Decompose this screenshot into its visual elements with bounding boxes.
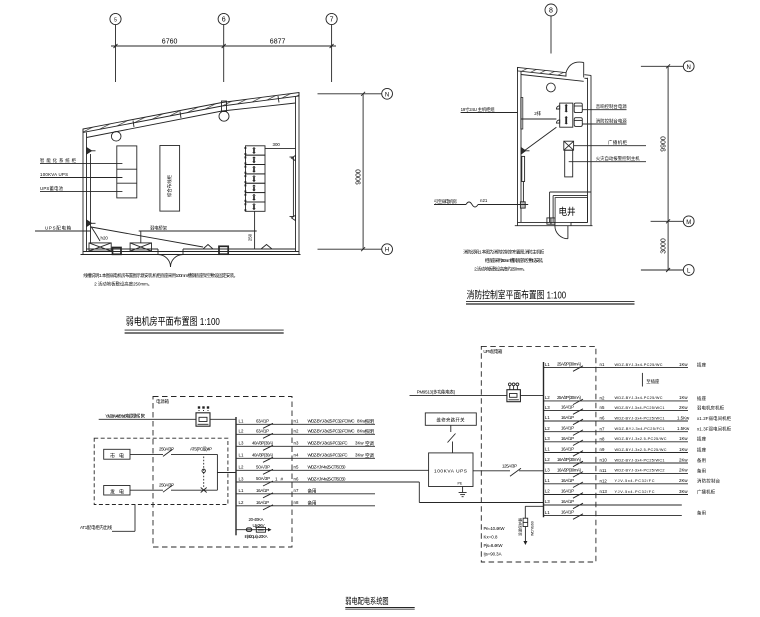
- svg-text:63A/1P: 63A/1P: [256, 428, 269, 433]
- grid line N right: [641, 65, 683, 67]
- svg-text:WDZ-BYJ-3x25-PC32-FC/WC: WDZ-BYJ-3x25-PC32-FC/WC: [308, 419, 355, 424]
- grid bubble 6: [218, 13, 229, 24]
- wall speaker room2: [521, 148, 530, 155]
- roof joint ticks: [133, 121, 134, 128]
- svg-text:WDYB60: WDYB60: [531, 521, 535, 536]
- source box 发电: [104, 486, 130, 496]
- svg-text:WDZ-BYJ-3x4-PC25/WC1: WDZ-BYJ-3x4-PC25/WC1: [615, 406, 665, 410]
- leader label 100KVA UPS: [40, 177, 122, 179]
- svg-text:100KVA UPS: 100KVA UPS: [40, 172, 68, 177]
- svg-text:40A/3P(30A): 40A/3P(30A): [252, 452, 274, 457]
- load calc text block: [484, 526, 506, 557]
- wall speaker right 1: [292, 155, 296, 160]
- svg-text:125A/3P: 125A/3P: [502, 463, 517, 468]
- svg-text:250: 250: [248, 233, 253, 241]
- svg-text:至插座: 至插座: [646, 378, 660, 385]
- room2 bottom wall: [515, 225, 593, 227]
- surge protector SPD2: [517, 506, 543, 545]
- smoke detector circle: [111, 132, 121, 142]
- grid line 5: [115, 25, 117, 82]
- door D1 jambs: [157, 249, 159, 255]
- wall outlet box room2: [520, 202, 525, 208]
- shaft inner outline: [555, 198, 587, 223]
- cable tray label 弱电桥架: [139, 230, 257, 232]
- feeder row n8 spare: [236, 500, 375, 510]
- svg-text:n21: n21: [480, 198, 488, 203]
- svg-text:16A/1P: 16A/1P: [561, 405, 574, 410]
- svg-text:6760: 6760: [162, 39, 178, 46]
- svg-text:L2: L2: [545, 395, 550, 400]
- svg-text:n6: n6: [294, 476, 299, 481]
- svg-text:UPS蓄电池: UPS蓄电池: [40, 185, 64, 192]
- svg-text:Pjs=8.4KW: Pjs=8.4KW: [484, 543, 504, 548]
- breaker QF1 250A/3P: [163, 449, 173, 456]
- svg-text:YJV-5x4-PC32/FC: YJV-5x4-PC32/FC: [615, 479, 655, 483]
- bypass switch link: [448, 425, 456, 453]
- room2 top door leaf and swing: [566, 62, 591, 78]
- svg-text:6: 6: [222, 16, 226, 23]
- leader 音响控制台: [582, 109, 626, 111]
- wall bottom mid: [83, 251, 299, 253]
- svg-text:WDZ-YJY-4x25-CT/SC50: WDZ-YJY-4x25-CT/SC50: [308, 465, 347, 470]
- svg-text:L2: L2: [239, 465, 244, 470]
- wall tray bar room2: [522, 156, 525, 181]
- feeder row u6: [544, 436, 707, 446]
- wire breaker to ATS: [171, 453, 201, 455]
- svg-text:L2: L2: [545, 489, 550, 494]
- svg-text:AT1配电柜内出线: AT1配电柜内出线: [80, 524, 113, 531]
- svg-text:维修旁路开关: 维修旁路开关: [437, 417, 466, 424]
- dimension 9900: [660, 64, 670, 272]
- maintenance bypass box 维修旁路开关: [425, 413, 476, 425]
- leader label 配电柜出线: [80, 505, 135, 532]
- surge protector SPD1 branch: [236, 517, 272, 539]
- rack top link wire: [265, 147, 296, 149]
- wire meter to bus: [210, 418, 236, 420]
- grid bubble M: [683, 216, 694, 227]
- svg-text:16A/1P: 16A/1P: [561, 499, 574, 504]
- svg-text:PE: PE: [458, 482, 463, 486]
- wall left outer: [82, 129, 84, 255]
- grid bubble N (right plan): [683, 61, 694, 72]
- grid line 7: [331, 25, 333, 82]
- svg-text:n2: n2: [600, 396, 605, 401]
- multifunction meter M2: [507, 383, 521, 402]
- kWh meter M1: [196, 406, 210, 426]
- wall bottom outer: [81, 254, 301, 256]
- feeder row n7 spare: [236, 488, 375, 498]
- note h20: [91, 227, 100, 242]
- floor speaker triangle 1: [203, 245, 213, 250]
- grid bubble 5: [110, 13, 121, 24]
- svg-text:ATS(PC级)4P: ATS(PC级)4P: [190, 446, 212, 453]
- wire 发电 to breaker: [130, 489, 163, 491]
- console desk: [560, 103, 573, 127]
- svg-text:弱电桥架: 弱电桥架: [150, 224, 168, 231]
- svg-text:n6: n6: [600, 416, 605, 421]
- feeder row n1: [236, 418, 375, 428]
- wire 市电 to breaker: [130, 453, 163, 455]
- svg-text:Kx=0.8: Kx=0.8: [484, 535, 499, 540]
- svg-text:n8: n8: [600, 436, 605, 441]
- svg-text:16A/1P: 16A/1P: [256, 488, 269, 493]
- bypass wire n6 run: [419, 482, 543, 503]
- svg-text:市电: 市电: [110, 453, 124, 460]
- grid line L: [641, 269, 683, 271]
- svg-text:插座: 插座: [697, 446, 707, 453]
- svg-text:20-40KA: 20-40KA: [249, 517, 264, 522]
- leader label 智能化系统机柜: [40, 162, 122, 164]
- UPS output breaker 125A/3P: [473, 463, 544, 476]
- svg-text:L: L: [687, 269, 691, 275]
- svg-text:n5: n5: [600, 405, 605, 410]
- cabinet 综合布线柜: [160, 146, 180, 212]
- feeder row u10: [544, 478, 721, 488]
- svg-text:x1.3F弱电间机柜: x1.3F弱电间机柜: [697, 426, 732, 433]
- dimension 9000: [355, 92, 365, 251]
- svg-text:n4: n4: [294, 453, 299, 458]
- fire alarm cabinet: [565, 150, 573, 177]
- branch drop to socket: [642, 373, 659, 387]
- svg-text:1Kw: 1Kw: [679, 447, 688, 452]
- svg-text:L3: L3: [545, 499, 550, 504]
- svg-text:n2: n2: [294, 429, 299, 434]
- grid bubble L: [683, 265, 694, 276]
- svg-text:6877: 6877: [270, 39, 286, 46]
- svg-text:WDZ-BYJ-3x4-PC25/WC: WDZ-BYJ-3x4-PC25/WC: [615, 363, 663, 367]
- source box 市电: [104, 449, 130, 459]
- svg-text:5: 5: [114, 17, 117, 23]
- grid line M: [651, 220, 684, 222]
- svg-text:L1: L1: [239, 419, 244, 424]
- leader 火灾自动报警控制柜: [569, 161, 646, 163]
- svg-text:16A/1P: 16A/1P: [561, 426, 574, 431]
- leader label UPS蓄电池: [40, 191, 122, 193]
- svg-text:H: H: [385, 248, 389, 254]
- svg-text:n7: n7: [294, 488, 299, 493]
- svg-text:柜底座采用250mm 槽钢底座架空敷设安装。: 柜底座采用250mm 槽钢底座架空敷设安装。: [485, 257, 546, 264]
- svg-text:n7: n7: [600, 426, 605, 431]
- feeder row n6 (bypass): [236, 476, 419, 486]
- svg-text:消防控制台电源: 消防控制台电源: [596, 117, 628, 124]
- feeder row u13 spare: [544, 509, 707, 519]
- svg-text:16A/1P: 16A/1P: [561, 489, 574, 494]
- svg-text:n1: n1: [600, 362, 605, 367]
- panel box UPS配电箱 (dashed): [481, 346, 596, 562]
- svg-text:250A/3P: 250A/3P: [159, 447, 174, 452]
- svg-text:WDZ-BYJ-3x2.5-PC25/WC: WDZ-BYJ-3x2.5-PC25/WC: [615, 448, 667, 452]
- operator chair 2: [574, 118, 582, 127]
- svg-text:浪涌保护器: 浪涌保护器: [517, 518, 522, 536]
- svg-text:线槽说明:1 本图弱电机房布置图示意安装,机柜底座采用100: 线槽说明:1 本图弱电机房布置图示意安装,机柜底座采用100mm槽钢底座架空敷设…: [83, 272, 238, 279]
- svg-text:n13: n13: [600, 489, 608, 494]
- svg-text:M: M: [686, 220, 691, 226]
- operator chair 1: [574, 103, 582, 113]
- svg-text:n10: n10: [600, 458, 608, 463]
- wire meter to bus: [520, 394, 543, 396]
- wall speaker left 2: [87, 220, 96, 227]
- svg-text:备用: 备用: [308, 488, 317, 495]
- svg-text:L2: L2: [545, 457, 550, 462]
- rack row of 7 cabinets: [245, 146, 266, 212]
- svg-text:300: 300: [273, 142, 281, 147]
- feeder row u5: [544, 426, 732, 436]
- feeder row u8: [544, 457, 707, 467]
- svg-text:Ijs=90.3A: Ijs=90.3A: [484, 552, 502, 557]
- svg-text:WDZ-BYJ-3x4-PC25/FC1: WDZ-BYJ-3x4-PC25/FC1: [615, 427, 665, 431]
- svg-text:9000: 9000: [355, 169, 362, 185]
- svg-text:N: N: [687, 65, 691, 71]
- diagonal conduit room2: [524, 127, 556, 151]
- grid line N: [318, 93, 382, 95]
- room2 top wall hatched: [518, 67, 567, 76]
- wall left inner: [86, 133, 88, 252]
- svg-text:16A/1P: 16A/1P: [561, 510, 574, 515]
- svg-text:备用: 备用: [697, 467, 706, 474]
- svg-text:WDZ-BYJ-3x4-PC25/WC1: WDZ-BYJ-3x4-PC25/WC1: [615, 458, 665, 462]
- panel box 电源箱 (dashed): [153, 397, 292, 548]
- grid line 6: [223, 25, 225, 82]
- rack feeder drop 250: [254, 211, 256, 249]
- svg-text:1#: 1#: [275, 476, 283, 481]
- feeder row n4: [236, 452, 375, 462]
- svg-text:3000: 3000: [660, 238, 667, 254]
- svg-text:WDZ-BYJ-3x2.5-PC25/WC: WDZ-BYJ-3x2.5-PC25/WC: [615, 437, 667, 441]
- svg-text:40A/3P(30A): 40A/3P(30A): [252, 440, 274, 445]
- svg-text:综合布线柜: 综合布线柜: [166, 174, 173, 197]
- feeder row u12 spare: [544, 499, 682, 509]
- feeder row n2: [236, 428, 375, 438]
- wall cable tray line: [292, 157, 294, 217]
- feeder row u11: [544, 488, 716, 498]
- svg-text:L1: L1: [545, 510, 550, 515]
- svg-text:63A/1P: 63A/1P: [256, 418, 269, 423]
- svg-text:16A/1P: 16A/1P: [561, 436, 574, 441]
- wall hatched roof band: [83, 93, 299, 133]
- svg-text:WDZ-BYJ-3x16-PC32-FC: WDZ-BYJ-3x16-PC32-FC: [308, 453, 348, 458]
- svg-text:L1: L1: [545, 478, 550, 483]
- svg-text:16A/1P: 16A/1P: [561, 415, 574, 420]
- svg-text:L3: L3: [545, 468, 550, 473]
- svg-text:弱电机房平面布置图 1:100: 弱电机房平面布置图 1:100: [126, 315, 220, 327]
- wall speaker right 2: [292, 215, 296, 220]
- svg-text:1.5Kw: 1.5Kw: [677, 415, 690, 420]
- svg-text:3Kw: 3Kw: [355, 453, 364, 458]
- svg-text:音响控制台电源: 音响控制台电源: [596, 103, 628, 110]
- wire breaker to ATS lower: [171, 489, 201, 491]
- svg-text:消防控制台: 消防控制台: [697, 478, 721, 485]
- feeder row u4: [544, 415, 732, 425]
- svg-text:x1.2F弱电间机柜: x1.2F弱电间机柜: [697, 415, 732, 422]
- riser wire room2: [522, 182, 524, 202]
- leader 19寸 rack label: [461, 112, 518, 114]
- svg-text:n1: n1: [294, 419, 299, 424]
- svg-text:L3: L3: [545, 436, 550, 441]
- svg-text:PM9513(多功能电表): PM9513(多功能电表): [417, 388, 456, 395]
- svg-text:WDZ-BYJ-3x4-PC25/WC2: WDZ-BYJ-3x4-PC25/WC2: [615, 469, 665, 473]
- room2 top wall inner face: [521, 75, 584, 82]
- svg-text:3Kw: 3Kw: [355, 441, 364, 446]
- svg-text:n5: n5: [294, 465, 299, 470]
- svg-text:2Kw: 2Kw: [679, 468, 688, 473]
- svg-text:100KVA UPS: 100KVA UPS: [434, 468, 467, 474]
- console glyphs: [565, 104, 568, 125]
- svg-text:WDZ-BYJ-3x25-PC32-FC/WC: WDZ-BYJ-3x25-PC32-FC/WC: [308, 429, 355, 434]
- svg-text:广播机柜: 广播机柜: [697, 488, 716, 495]
- svg-text:16A/1P: 16A/1P: [561, 447, 574, 452]
- svg-text:L1: L1: [239, 488, 244, 493]
- svg-text:L3: L3: [239, 441, 244, 446]
- door D1 leaves: [158, 255, 171, 268]
- svg-text:1.5Kw: 1.5Kw: [677, 426, 690, 431]
- shaft 电井 partition walls: [550, 191, 591, 193]
- svg-text:广播机柜: 广播机柜: [608, 139, 628, 146]
- room2 right wall: [590, 75, 592, 226]
- ground at UPS: [458, 482, 467, 497]
- svg-text:L1: L1: [545, 415, 550, 420]
- svg-text:L1: L1: [239, 453, 244, 458]
- leader 引至机房 with break symbol: [434, 198, 528, 207]
- svg-text:YJV-5x4-PC32/FC: YJV-5x4-PC32/FC: [615, 490, 655, 494]
- feeder row u2: [544, 395, 707, 405]
- svg-text:8: 8: [549, 8, 553, 15]
- grid line 8: [550, 16, 552, 54]
- svg-text:7: 7: [330, 16, 334, 23]
- console side bumps: [556, 106, 559, 109]
- grid bubble 7: [326, 13, 337, 24]
- svg-text:电源箱: 电源箱: [156, 398, 170, 405]
- bus bar left panel: [235, 417, 237, 535]
- svg-text:2排: 2排: [534, 110, 541, 117]
- wall box 1: [113, 248, 122, 255]
- detector circle room2: [547, 83, 556, 92]
- svg-text:空调: 空调: [365, 440, 374, 447]
- svg-text:9900: 9900: [660, 136, 667, 152]
- meter leader wire: [410, 394, 507, 396]
- bottom door room2: [555, 222, 571, 238]
- console feed wire: [521, 118, 556, 120]
- svg-text:Pe=10.4KW: Pe=10.4KW: [484, 526, 506, 531]
- leader 广播机柜: [574, 145, 646, 147]
- svg-text:YJV22-1KV-4x25+1x16 电缆埋地引来: YJV22-1KV-4x25+1x16 电缆埋地引来: [105, 412, 145, 419]
- svg-text:1Kw: 1Kw: [679, 395, 688, 400]
- svg-text:50A/3P: 50A/3P: [256, 464, 270, 469]
- svg-text:2Kw: 2Kw: [679, 405, 688, 410]
- feeder row u7: [544, 446, 707, 456]
- ATS transfer switch: [190, 446, 217, 493]
- svg-text:电井: 电井: [559, 206, 576, 218]
- floor box 1: [89, 243, 111, 251]
- bus bar UPS panel: [543, 362, 545, 517]
- svg-text:2.活动地板敷设高度约250mm。: 2.活动地板敷设高度约250mm。: [474, 266, 527, 273]
- svg-text:1Kw: 1Kw: [679, 362, 688, 367]
- feeder row n3: [236, 440, 375, 450]
- feeder row n5 (to UPS): [236, 464, 429, 474]
- svg-text:L2: L2: [545, 426, 550, 431]
- svg-text:25A/2P(30mA): 25A/2P(30mA): [557, 362, 582, 367]
- svg-text:3Kw: 3Kw: [679, 489, 688, 494]
- floor box 2: [130, 243, 151, 251]
- svg-text:插座: 插座: [697, 436, 707, 443]
- breaker QF2 250A/3P: [163, 485, 173, 492]
- grid bubble H (left plan): [382, 244, 393, 255]
- svg-text:n11: n11: [600, 468, 608, 473]
- svg-text:引至弱电机房: 引至弱电机房: [434, 198, 458, 205]
- svg-text:L3: L3: [545, 405, 550, 410]
- svg-text:Up≤2KV: Up≤2KV: [253, 523, 265, 528]
- tray drop to floor box: [140, 231, 142, 243]
- wall recess room1: [521, 98, 523, 130]
- floor speaker triangle 2: [261, 245, 272, 250]
- svg-text:N: N: [385, 92, 389, 98]
- svg-text:备用: 备用: [697, 509, 706, 516]
- svg-text:2 活动地板敷设高度250mm。: 2 活动地板敷设高度250mm。: [94, 281, 152, 288]
- grid line H: [318, 248, 382, 250]
- svg-text:16A/1P: 16A/1P: [256, 500, 269, 505]
- svg-text:n8: n8: [294, 500, 299, 505]
- leader 消防控制台: [582, 123, 626, 125]
- svg-text:19寸24U 主机柜组: 19寸24U 主机柜组: [461, 106, 496, 113]
- svg-text:WDZ-BYJ-3x4-PC25/WC1: WDZ-BYJ-3x4-PC25/WC1: [615, 416, 665, 420]
- wire ATS to bus: [217, 472, 236, 474]
- floor box room2: [564, 141, 574, 150]
- svg-text:UPS配电箱: UPS配电箱: [45, 224, 72, 231]
- svg-text:插座: 插座: [697, 395, 707, 402]
- feeder row u1: [544, 362, 707, 372]
- svg-text:L3: L3: [239, 476, 244, 481]
- svg-text:h20: h20: [101, 236, 109, 241]
- svg-text:L2: L2: [239, 500, 244, 505]
- svg-text:弱电配电系统图: 弱电配电系统图: [345, 595, 388, 606]
- ceiling unit at grid6: [222, 101, 227, 112]
- wall speaker left 1: [87, 148, 96, 155]
- wall right outer: [298, 93, 300, 255]
- svg-text:In(8/20μs)=20KA: In(8/20μs)=20KA: [245, 534, 268, 539]
- svg-text:L1: L1: [545, 447, 550, 452]
- svg-text:WDZ-BYJ-3x4-PC25/WC: WDZ-BYJ-3x4-PC25/WC: [615, 396, 663, 400]
- svg-text:n9: n9: [600, 447, 605, 452]
- svg-text:250A/3P: 250A/3P: [159, 482, 174, 487]
- riser wire along left wall: [90, 154, 92, 243]
- svg-text:WDZ-BYJ-3x16-PC32-FC: WDZ-BYJ-3x16-PC32-FC: [308, 441, 348, 446]
- svg-text:25A/2P(30mA): 25A/2P(30mA): [557, 395, 582, 400]
- svg-text:16A/2P(30mA): 16A/2P(30mA): [557, 457, 582, 462]
- wall roof inner face: [87, 103, 296, 138]
- wall right inner: [295, 96, 297, 252]
- UPS unit 100KVA: [429, 453, 473, 487]
- svg-text:火灾自动报警控制主机: 火灾自动报警控制主机: [596, 155, 641, 162]
- room2 left wall: [517, 67, 519, 225]
- svg-text:n3: n3: [294, 441, 299, 446]
- svg-text:16A/2P(30mA): 16A/2P(30mA): [557, 467, 582, 472]
- svg-text:WDZ-YJY-4x25-CT/SC50: WDZ-YJY-4x25-CT/SC50: [308, 476, 347, 481]
- feeder row u9: [544, 467, 707, 477]
- ATS enclosure (dashed): [94, 438, 228, 504]
- door stop boxes: [547, 218, 555, 224]
- svg-text:2Kw: 2Kw: [679, 457, 688, 462]
- svg-text:空调: 空调: [365, 452, 374, 459]
- incoming feed wire: [99, 418, 196, 420]
- svg-text:L2: L2: [239, 429, 244, 434]
- wall box 2: [219, 246, 228, 254]
- leader label UPS配电箱: [35, 230, 91, 232]
- svg-text:50A/3P: 50A/3P: [256, 476, 270, 481]
- svg-text:消防控制室平面布置图 1:100: 消防控制室平面布置图 1:100: [467, 288, 567, 300]
- svg-text:智能化系统柜: 智能化系统柜: [40, 157, 77, 164]
- feeder row u3: [544, 405, 725, 415]
- svg-text:L1: L1: [545, 362, 550, 367]
- svg-text:弱电机房机柜: 弱电机房机柜: [697, 405, 725, 412]
